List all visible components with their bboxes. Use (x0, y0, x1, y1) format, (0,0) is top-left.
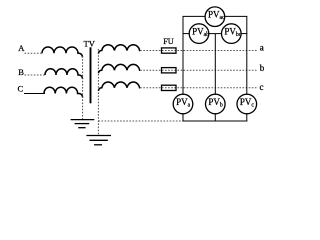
svg-text:c: c (260, 82, 264, 92)
voltmeter PVb (206, 94, 226, 114)
wire column c to bus (246, 114, 248, 122)
wire primary neutral bus (82, 56, 84, 119)
transformer TV secondary winding b (99, 64, 141, 73)
wire column a vertical (182, 16, 184, 94)
voltmeter PVbc (222, 24, 242, 44)
wire phase B input (25, 74, 47, 76)
wire box top edge right (225, 15, 248, 17)
wire stub PVbc to c column (241, 33, 247, 35)
wire stub PVab to PVbc (209, 33, 222, 35)
transformer TV primary winding C (44, 87, 83, 97)
wire phase C input (24, 93, 45, 95)
wire column b vertical (214, 34, 216, 95)
voltmeter PVac (205, 7, 225, 27)
wire ground bus bottom (98, 120, 183, 122)
wire column c vertical (246, 16, 248, 94)
transformer TV secondary winding c (99, 82, 141, 91)
svg-text:a: a (260, 43, 264, 53)
transformer TV primary winding A (42, 47, 83, 57)
svg-text:B: B (18, 67, 24, 77)
wire column b to bus (214, 114, 216, 122)
fuse FU1 (162, 48, 177, 53)
wire phase A input (25, 52, 44, 54)
voltmeter PVa (173, 94, 193, 114)
transformer TV secondary winding a (99, 45, 141, 54)
transformer TV core (90, 47, 92, 103)
svg-text:A: A (18, 43, 25, 53)
wire line b (140, 69, 256, 71)
wire secondary neutral bus (97, 49, 99, 136)
svg-text:C: C (18, 84, 24, 94)
wire box top edge left (183, 15, 206, 17)
wire column a to bus (182, 114, 184, 122)
svg-text:FU: FU (163, 37, 174, 46)
voltmeter PVc (237, 94, 257, 114)
fuse FU3 (162, 85, 177, 90)
transformer TV primary winding B (45, 69, 83, 79)
wire stub a to PVab (183, 33, 190, 35)
wire line a (140, 50, 256, 52)
ground primary neutral (71, 120, 95, 128)
wire line c (140, 87, 256, 89)
wire ground bus bottom right (183, 120, 248, 122)
fuse FU2 (162, 68, 177, 73)
voltmeter PVab (189, 24, 209, 44)
ground secondary neutral (86, 136, 111, 145)
svg-text:TV: TV (84, 39, 96, 49)
svg-text:b: b (260, 63, 265, 73)
